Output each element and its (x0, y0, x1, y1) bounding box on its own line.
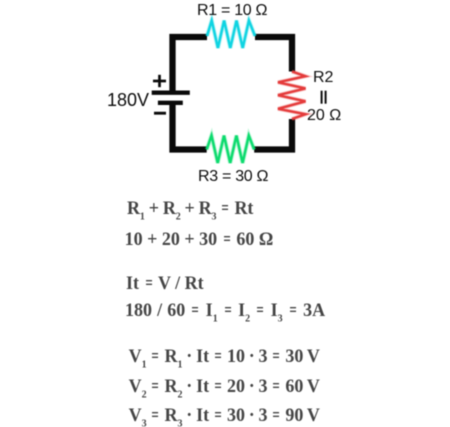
label = (vertical equals) for R2 value (322, 91, 326, 104)
label R3 = 30 ohm (198, 167, 268, 187)
battery polarity minus sign (154, 112, 166, 115)
wire bottom-right segment (R2 bottom down and across to R3) (254, 119, 292, 150)
label 180V (battery value) (107, 89, 149, 111)
equation line 6: V2 = R2 . It = 20 . 3 = 60 V (129, 376, 320, 395)
equation line 7: V3 = R3 . It = 30 . 3 = 90 V (129, 405, 320, 424)
equation line 4: 180 / 60 = I1 = I2 = I3 = 3A (125, 300, 325, 319)
label R1 = 10 ohm (197, 1, 267, 21)
battery V 180V : positive long plate (152, 90, 190, 94)
resistor R3 (green zigzag, bottom) (207, 136, 255, 164)
label R2 (313, 68, 333, 88)
label 20 ohm (R2 value) (307, 106, 341, 126)
equation line 2: 10 + 20 + 30 = 60 ohm (125, 229, 274, 248)
equation line 3: It = V / Rt (126, 273, 204, 292)
equation line 5: V1 = R1 . It = 10 . 3 = 30 V (129, 346, 320, 365)
resistor R1 (cyan zigzag, top) (207, 21, 255, 49)
resistor R2 (red zigzag, right) (278, 72, 306, 120)
battery V 180V : negative short plate (158, 101, 183, 105)
wire top-left segment (battery + terminal up and across to R1) (173, 37, 208, 91)
wire bottom-left segment (R3 to battery - terminal) (173, 105, 207, 150)
equation line 1: R1 + R2 + R3 = Rt (127, 198, 253, 217)
wire top-right segment (R1 to R2 top) (255, 37, 292, 72)
battery polarity plus sign (153, 75, 166, 87)
